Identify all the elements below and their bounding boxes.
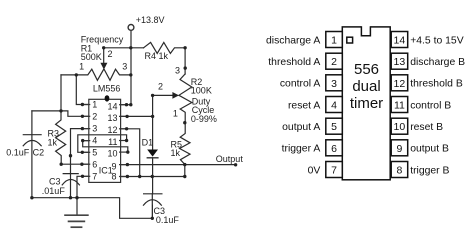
svg-text:2: 2 [108,49,113,59]
svg-text:0-99%: 0-99% [191,114,217,124]
resistor R2 potentiometer body [179,74,192,123]
svg-text:5: 5 [92,147,97,157]
svg-text:C2: C2 [33,148,45,158]
pin numbers [331,35,405,177]
svg-text:LM556: LM556 [93,83,121,93]
svg-text:7: 7 [92,171,97,181]
capacitor C2 lead [31,111,33,198]
wire pin12 down [121,129,140,177]
wire pin8 row [121,176,185,178]
svg-text:1: 1 [331,35,337,47]
svg-text:9: 9 [396,143,402,155]
resistor R3 body [56,111,66,164]
wire pin5 to pin11 [78,135,127,153]
svg-text:5: 5 [331,121,337,133]
svg-text:0V: 0V [308,165,321,176]
ground symbol [64,215,89,227]
pot R1 wiper arrow [100,63,107,70]
wire +13.8V rail [130,30,132,104]
pin boxes right [391,32,408,178]
svg-text:4: 4 [92,136,97,146]
pot R2 wiper arrow [172,92,179,99]
svg-text:13: 13 [394,56,406,68]
resistor R1 potentiometer body [61,69,131,80]
svg-text:output A: output A [282,122,320,133]
wire pin9 output [121,164,236,166]
svg-text:11: 11 [108,137,117,147]
svg-text:dual: dual [352,78,380,95]
svg-text:R4 1k: R4 1k [145,51,169,61]
svg-text:timer: timer [350,95,383,112]
svg-text:1k: 1k [171,148,181,158]
wire R1 wiper stem [103,48,105,63]
wire pin4 to pin10 [83,141,128,153]
svg-text:13: 13 [107,113,117,123]
svg-text:7: 7 [331,165,337,177]
svg-text:2: 2 [92,111,97,121]
op-amp 556 dual timer body [342,27,390,180]
svg-text:10: 10 [107,149,117,159]
wire R2 wiper to D1 [153,95,173,149]
svg-text:8: 8 [396,165,402,177]
wire node A horizontal [32,111,89,116]
svg-text:0.1uF: 0.1uF [156,215,180,225]
svg-text:1: 1 [173,109,178,119]
terminal +13.8V [128,25,134,31]
svg-text:output B: output B [410,144,449,155]
svg-text:threshold A: threshold A [268,57,320,68]
svg-text:D1: D1 [142,137,154,147]
svg-text:control A: control A [280,79,321,90]
capacitor C2 plates [23,134,41,136]
wire ground rail [32,198,152,219]
IC pin stubs right [119,105,128,177]
svg-text:10: 10 [394,121,406,133]
left pin labels [266,35,320,176]
wire top node to R4 [104,47,144,49]
wire D1 cathode down [152,158,154,194]
svg-text:2: 2 [331,56,337,68]
svg-text:11: 11 [394,100,405,112]
svg-text:discharge B: discharge B [410,57,465,68]
svg-text:1k: 1k [48,137,58,147]
right pin labels [410,35,465,176]
svg-text:3: 3 [331,78,337,90]
svg-text:4: 4 [331,100,337,112]
diode D1 [147,150,158,157]
svg-text:trigger B: trigger B [410,165,449,176]
svg-text:12: 12 [107,125,117,135]
wire pin1 of IC [76,75,89,105]
svg-text:100K: 100K [191,86,212,96]
svg-text:3: 3 [175,65,180,75]
svg-text:14: 14 [107,101,117,111]
svg-text:Output: Output [216,154,244,164]
wire pin7 to ground [77,176,89,197]
svg-text:1: 1 [92,100,97,110]
wire pin3 to C3 [71,129,89,174]
svg-text:14: 14 [394,35,406,47]
svg-text:reset B: reset B [410,122,443,133]
IC pin stubs left [82,105,90,177]
notch [361,26,370,36]
svg-text:3: 3 [122,61,127,71]
svg-text:control B: control B [410,100,451,111]
svg-text:reset A: reset A [288,100,320,111]
svg-text:threshold B: threshold B [410,79,463,90]
556 dual timer label [350,61,383,112]
pin boxes left [326,32,343,178]
svg-text:+13.8V: +13.8V [136,15,165,25]
capacitor C3 .01uF [63,173,78,175]
svg-text:2: 2 [158,82,163,92]
IC top ellipse marker [105,95,110,101]
svg-text:.01uF: .01uF [42,186,66,196]
svg-text:3: 3 [92,124,97,134]
wire pin13 [121,115,153,117]
svg-text:trigger A: trigger A [282,144,321,155]
svg-text:6: 6 [331,143,337,155]
capacitor C3 0.1uF [144,193,162,195]
svg-text:IC1: IC1 [99,166,113,176]
svg-text:556: 556 [354,61,379,78]
pin1 square marker [347,37,353,43]
wire pin6 row [61,163,89,165]
resistor R4 body [144,42,186,74]
svg-text:C3: C3 [49,176,61,186]
wire ground stem [76,198,78,215]
svg-text:0.1uF: 0.1uF [6,148,30,158]
svg-text:6: 6 [92,159,97,169]
svg-text:discharge A: discharge A [266,35,320,46]
svg-text:+4.5 to 15V: +4.5 to 15V [410,35,464,46]
svg-text:1: 1 [79,61,84,71]
op IC1 box [89,99,121,182]
wire R1 pin1 down [60,75,62,111]
wire pin14 to rail [121,104,131,106]
resistor R5 body [180,123,190,165]
schematic labels [6,15,243,225]
wire R5 to pin8 [184,165,186,177]
svg-text:12: 12 [394,78,406,90]
